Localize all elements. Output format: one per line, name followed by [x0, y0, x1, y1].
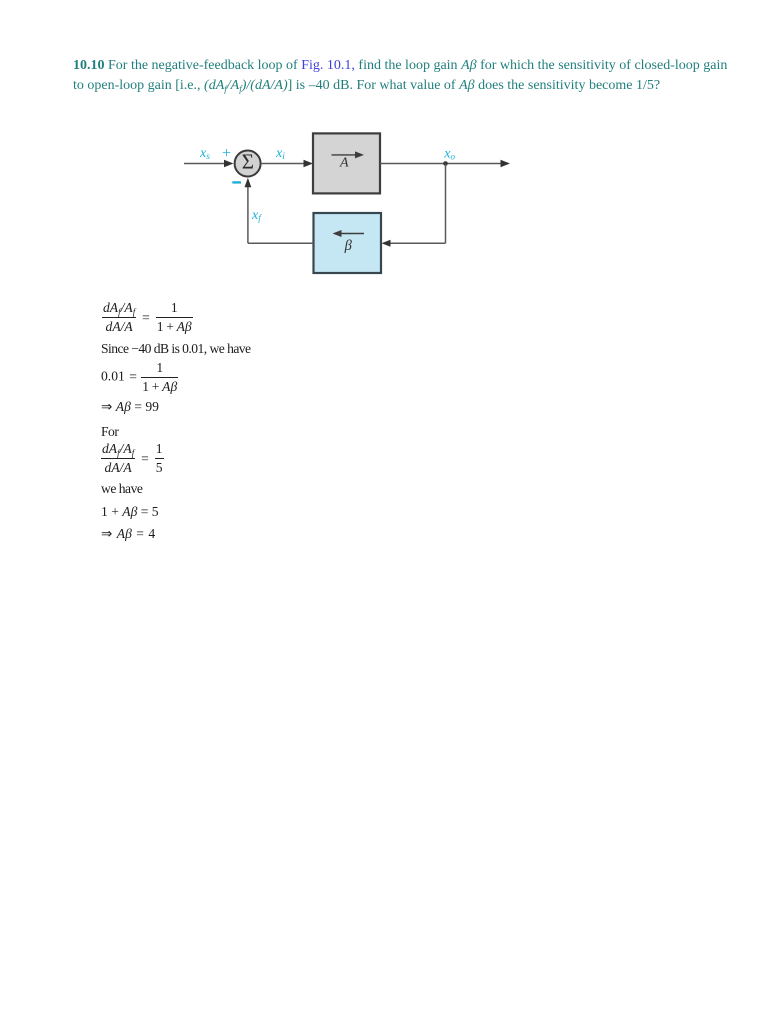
equation 4 — [101, 441, 164, 476]
wire: amplifier A output to x_o — [380, 163, 503, 165]
block: amplifier A — [313, 133, 380, 193]
wire: input x_s into summer — [184, 163, 226, 165]
svg-text:xf: xf — [251, 208, 262, 224]
block: feedback network beta — [314, 213, 382, 273]
svg-text:xs: xs — [199, 146, 210, 162]
arrowhead: feedback into summer bottom — [245, 178, 252, 188]
text: For — [101, 424, 118, 440]
text: since line — [101, 341, 251, 357]
label: minus sign — [232, 181, 241, 183]
svg-text:β: β — [344, 238, 353, 254]
equation 6 — [101, 526, 155, 542]
arrow: direction inside beta — [340, 233, 364, 235]
arrowhead: output — [501, 160, 511, 168]
svg-text:Σ: Σ — [242, 150, 254, 174]
wire: junction down to feedback — [445, 164, 447, 244]
svg-text:xo: xo — [443, 147, 455, 163]
equation 2 — [101, 360, 178, 395]
text: we have — [101, 481, 142, 497]
feedback block diagram — [0, 0, 540, 300]
wire: beta output left — [248, 242, 314, 244]
arrowhead: into amplifier A — [304, 160, 314, 168]
node: output junction dot — [443, 161, 448, 166]
svg-text:+: + — [222, 145, 231, 162]
equation 1: sensitivity formula — [102, 300, 193, 335]
wire: summer to amplifier A — [261, 163, 306, 165]
node: summing junction — [235, 151, 261, 177]
equation 5 — [101, 504, 159, 520]
svg-text:xi: xi — [275, 146, 285, 162]
wire: feedback top horizontal into beta — [388, 242, 446, 244]
arrowhead: into beta block — [382, 240, 391, 247]
problem statement — [73, 56, 753, 96]
arrow: gain direction inside A — [332, 154, 358, 156]
wire: feedback up into summer — [247, 184, 249, 243]
arrowhead: input into summer — [224, 160, 234, 168]
svg-text:A: A — [339, 156, 349, 171]
equation 3 — [101, 399, 159, 415]
